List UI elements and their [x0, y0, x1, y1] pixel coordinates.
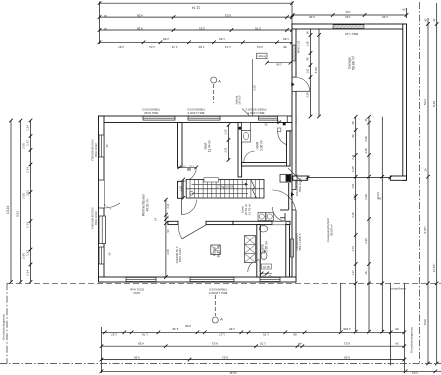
- svg-text:1.01: 1.01: [149, 45, 155, 49]
- svg-text:2.21: 2.21: [224, 147, 228, 153]
- stair mid rail: [186, 188, 264, 190]
- french window left wall: [99, 216, 106, 244]
- ramp diagonal at garage corner: [288, 168, 302, 182]
- svg-text:2.21: 2.21: [351, 154, 355, 160]
- svg-text:2.47²: 2.47²: [351, 166, 355, 172]
- svg-text:1.37: 1.37: [26, 140, 30, 146]
- svg-text:1.13: 1.13: [224, 129, 228, 135]
- svg-text:11.44 m²: 11.44 m²: [207, 140, 211, 152]
- stair break line: [251, 180, 257, 198]
- small wall y210: [280, 209, 289, 211]
- svg-text:2.38: 2.38: [364, 194, 368, 200]
- svg-text:1.17: 1.17: [351, 270, 355, 276]
- svg-text:58.86 m²: 58.86 m²: [352, 55, 356, 70]
- garage side door leaf + arc: [296, 90, 310, 92]
- garage top wall: [292, 24, 407, 29]
- svg-text:10.24: 10.24: [6, 206, 10, 214]
- svg-text:1.01: 1.01: [345, 10, 351, 14]
- svg-text:6.37²: 6.37²: [423, 226, 427, 233]
- window top wall HWR: [259, 116, 279, 120]
- driveway dim 1: [355, 117, 357, 332]
- svg-text:1.37: 1.37: [26, 250, 30, 256]
- window right wall lower: [291, 239, 294, 257]
- svg-text:2.35: 2.35: [351, 212, 355, 218]
- svg-text:1.74: 1.74: [171, 45, 177, 49]
- section line A top: [213, 84, 215, 103]
- wall gast left: [178, 123, 183, 168]
- svg-text:1.50: 1.50: [198, 45, 204, 49]
- driveway dim 3: [381, 117, 383, 332]
- chimney block: [280, 174, 291, 182]
- garage side door opening: [293, 77, 298, 91]
- svg-text:Grundstücksgrenze: Grundstücksgrenze: [2, 314, 6, 340]
- svg-text:3.49: 3.49: [172, 327, 178, 331]
- svg-text:86: 86: [293, 333, 297, 337]
- svg-text:14.11: 14.11: [229, 371, 237, 375]
- gast dim: [228, 125, 230, 160]
- top wall: [99, 116, 297, 123]
- bottom dim row3: [102, 359, 405, 361]
- entrance sill glyph box: [277, 128, 281, 132]
- svg-text:2.35: 2.35: [364, 238, 368, 244]
- svg-text:1.24: 1.24: [26, 125, 30, 131]
- left dim 10.24: [10, 121, 12, 283]
- svg-text:BRH 1.25/0.5: BRH 1.25/0.5: [247, 111, 264, 115]
- level mark: [262, 264, 272, 269]
- svg-text:24: 24: [395, 342, 399, 346]
- bottom wall: [99, 277, 297, 282]
- garage top window hatch: [333, 25, 364, 29]
- svg-text:17 Stg 18.6/26: 17 Stg 18.6/26: [217, 186, 234, 189]
- L wall wc corridor: [280, 217, 285, 219]
- extension line x404.5: [404, 283, 406, 371]
- svg-text:1.74: 1.74: [225, 45, 231, 49]
- svg-text:BRH 1.25/08.5: BRH 1.25/08.5: [208, 291, 227, 295]
- svg-text:2.04: 2.04: [257, 45, 263, 49]
- wall gast right: [238, 123, 242, 178]
- svg-text:BRH 10/22: BRH 10/22: [178, 248, 182, 262]
- svg-text:11.74: 11.74: [192, 6, 200, 10]
- svg-text:2.67: 2.67: [118, 45, 124, 49]
- svg-text:40.51 m²: 40.51 m²: [145, 198, 149, 212]
- svg-text:2.48: 2.48: [309, 15, 315, 19]
- section line A bottom: [214, 295, 216, 316]
- gast door arc: [182, 167, 196, 181]
- svg-text:1.01: 1.01: [189, 165, 194, 168]
- wc left wall: [257, 225, 261, 277]
- svg-text:BRH 1.25: BRH 1.25: [345, 32, 358, 36]
- svg-text:DN 100: DN 100: [238, 95, 242, 104]
- bottom dim row4: [102, 370, 441, 372]
- svg-text:BRH 10/22: BRH 10/22: [144, 111, 158, 115]
- svg-text:1.74: 1.74: [26, 222, 30, 228]
- svg-text:Grundstücksgrenze: Grundstücksgrenze: [410, 327, 414, 353]
- svg-text:BRH 10/22: BRH 10/22: [298, 178, 302, 192]
- Lueftung box: [257, 53, 268, 59]
- extension line x390.4: [389, 283, 391, 365]
- window left wall lower: [99, 247, 104, 264]
- right dim chain outer: [436, 3, 438, 364]
- garage interior dim 1: [310, 29, 312, 117]
- svg-text:86: 86: [283, 45, 287, 49]
- svg-text:25: 25: [364, 118, 368, 121]
- svg-text:2.21: 2.21: [166, 203, 170, 209]
- svg-text:5.49: 5.49: [432, 101, 436, 107]
- svg-text:90: 90: [351, 134, 355, 137]
- wc toilet: [261, 250, 265, 253]
- right dim chain inner: [427, 18, 429, 364]
- driveway vertical line: [340, 283, 342, 331]
- window top wall gast: [188, 116, 220, 120]
- svg-text:58.80 m²: 58.80 m²: [330, 224, 334, 236]
- garage door line: [308, 176, 391, 178]
- side entrance arc: [273, 190, 297, 214]
- svg-text:4.26: 4.26: [134, 355, 140, 359]
- svg-text:A: A: [220, 317, 223, 322]
- svg-text:BRH 1.25: BRH 1.25: [296, 40, 300, 53]
- svg-text:1.10: 1.10: [178, 186, 182, 192]
- hatch window porch-garage wall: [292, 45, 295, 61]
- kitchen door leaf + arc: [182, 225, 206, 239]
- svg-text:84: 84: [402, 8, 405, 12]
- staircase outline: [186, 180, 264, 199]
- dim row small: [100, 41, 293, 43]
- stair label box: [204, 178, 219, 182]
- svg-text:10.24: 10.24: [376, 192, 380, 200]
- svg-text:2.48: 2.48: [382, 15, 388, 19]
- wc inner wall right: [286, 225, 290, 277]
- wc sink: [259, 226, 267, 232]
- small dim under level: [262, 273, 273, 275]
- wall left of stair: [178, 181, 183, 198]
- svg-text:3.51: 3.51: [199, 27, 205, 31]
- svg-text:6.51: 6.51: [225, 14, 231, 18]
- svg-text:1.25: 1.25: [345, 15, 351, 19]
- svg-text:13.78 m²: 13.78 m²: [248, 204, 252, 216]
- svg-text:6.51: 6.51: [212, 342, 218, 346]
- window bottom wall kitchen: [190, 277, 234, 281]
- svg-text:1.50: 1.50: [229, 327, 235, 331]
- svg-text:1.67: 1.67: [111, 333, 117, 337]
- svg-text:1.01: 1.01: [306, 68, 310, 74]
- svg-text:1.50: 1.50: [283, 37, 289, 41]
- svg-text:1.76: 1.76: [263, 333, 269, 337]
- left dim chain 3: [30, 121, 32, 283]
- svg-text:BRH 10/22: BRH 10/22: [94, 211, 98, 225]
- wall hwr bottom: [242, 163, 290, 167]
- svg-text:36: 36: [351, 121, 355, 124]
- garage bottom wall right part: [390, 176, 406, 180]
- svg-text:6.51: 6.51: [222, 355, 228, 359]
- property line bottom dash-dot: [0, 363, 441, 365]
- extension lines of top dim block: [99, 2, 101, 45]
- svg-text:6.51: 6.51: [344, 342, 350, 346]
- svg-text:1.74: 1.74: [26, 167, 30, 173]
- closet in hwr corner: [242, 123, 251, 131]
- washer dryer boxes: [258, 213, 266, 221]
- svg-text:BRH 1.25/0.5: BRH 1.25/0.5: [298, 233, 302, 250]
- svg-text:A: A: [218, 79, 221, 84]
- svg-text:2.24: 2.24: [306, 92, 310, 98]
- window bottom wall 1: [126, 277, 156, 281]
- stair treads: [190, 180, 260, 199]
- svg-text:16.11 m²: 16.11 m²: [216, 245, 220, 257]
- corridor door arc: [272, 207, 286, 221]
- left dim chain 2: [20, 121, 22, 283]
- stair walk line: [192, 192, 249, 194]
- right wall full (house+garage shared): [292, 24, 296, 282]
- svg-text:1.24: 1.24: [26, 270, 30, 276]
- window top wall living: [143, 116, 175, 120]
- gast door leaf dim: [179, 166, 196, 168]
- svg-text:2.65: 2.65: [22, 193, 26, 199]
- stair-living door arc: [182, 200, 197, 215]
- svg-text:1.01: 1.01: [412, 371, 418, 375]
- svg-text:5.01: 5.01: [423, 99, 427, 105]
- svg-text:10/22: 10/22: [133, 291, 140, 295]
- driveway dim 2: [368, 117, 370, 332]
- svg-text:1.18: 1.18: [306, 41, 310, 47]
- svg-text:80: 80: [395, 327, 399, 331]
- svg-text:5.65 m²: 5.65 m²: [264, 241, 268, 252]
- living dim: [165, 200, 167, 277]
- dim row 4.26 6.51: [100, 16, 293, 18]
- svg-text:±0.00: ±0.00: [263, 265, 270, 269]
- svg-text:4.26: 4.26: [138, 342, 144, 346]
- garage interior dim 2: [318, 29, 320, 117]
- svg-text:6.55: 6.55: [344, 355, 350, 359]
- wall shaft right of hwr: [287, 131, 291, 166]
- svg-text:1.76: 1.76: [142, 333, 148, 337]
- svg-text:2.65: 2.65: [22, 143, 26, 149]
- svg-text:2.65: 2.65: [163, 37, 169, 41]
- bottom dim row1: [102, 331, 405, 333]
- side entrance door opening right wall: [293, 190, 298, 211]
- kitchen top wall right part: [206, 221, 233, 224]
- terrace door opening left wall: [99, 180, 104, 208]
- dim garage width: [293, 14, 407, 16]
- entrance door opening top wall: [278, 116, 288, 121]
- svg-text:11.37²: 11.37²: [432, 264, 436, 273]
- svg-text:44: 44: [298, 342, 302, 346]
- svg-text:1.50: 1.50: [219, 37, 225, 41]
- svg-text:Lüftung: Lüftung: [257, 54, 266, 58]
- window left wall living upper: [99, 135, 104, 157]
- svg-text:2.01: 2.01: [26, 190, 30, 196]
- svg-text:3.26: 3.26: [364, 148, 368, 154]
- entrance arrow side door: [291, 192, 294, 196]
- svg-text:9.00 m²: 9.00 m²: [259, 140, 263, 151]
- wc top wall: [233, 221, 290, 224]
- svg-text:schaußweg: schaußweg: [390, 287, 406, 291]
- svg-text:1.51: 1.51: [351, 183, 355, 189]
- wc door arc lower: [248, 260, 260, 272]
- svg-text:5.00: 5.00: [423, 319, 427, 325]
- svg-text:2.26: 2.26: [364, 136, 368, 142]
- entrance arrow garage door: [291, 82, 294, 86]
- svg-text:1.17: 1.17: [219, 333, 225, 337]
- svg-text:25: 25: [364, 271, 368, 274]
- window bottom wall wc: [260, 277, 280, 281]
- dashed line y283 full: [7, 282, 441, 284]
- svg-text:9.51: 9.51: [16, 211, 20, 217]
- porch canopy outline: [252, 59, 254, 116]
- dim row 11.74: [100, 2, 293, 4]
- stair width dim: [182, 180, 184, 199]
- kitchen appliance column: [245, 236, 256, 263]
- property line left vertical: [6, 283, 8, 363]
- entrance door arc: [278, 132, 287, 145]
- garage bottom wall left part: [293, 176, 308, 180]
- svg-text:BRH 10/22: BRH 10/22: [94, 143, 98, 157]
- left wall: [99, 116, 105, 282]
- svg-text:1.75: 1.75: [260, 342, 266, 346]
- svg-text:2.36: 2.36: [166, 249, 170, 255]
- black column 2: [283, 122, 286, 125]
- svg-text:BRH 1.25/0.5: BRH 1.25/0.5: [187, 111, 204, 115]
- terrace door arc: [105, 203, 121, 208]
- svg-text:2.65: 2.65: [185, 324, 191, 328]
- property line right dash-dot: [419, 2, 421, 363]
- kitchen island hob: [211, 245, 221, 255]
- dim row 4.26 3.51 2.76: [100, 29, 293, 31]
- bottom dim row2: [102, 345, 405, 347]
- svg-text:5.60²: 5.60²: [314, 67, 318, 73]
- svg-text:1.74: 1.74: [351, 246, 355, 252]
- svg-text:4.26: 4.26: [137, 27, 143, 31]
- kitchen top wall left stub: [168, 221, 178, 224]
- svg-text:3.50: 3.50: [253, 85, 257, 91]
- svg-text:4.26: 4.26: [137, 14, 143, 18]
- garage right wall: [403, 24, 407, 180]
- svg-text:1.98: 1.98: [276, 62, 282, 66]
- hwr door arc: [244, 151, 255, 162]
- svg-text:2.76: 2.76: [255, 27, 261, 31]
- svg-text:2.65: 2.65: [22, 253, 26, 259]
- niche wall right of chimney: [288, 183, 290, 210]
- black column 1: [239, 127, 241, 130]
- svg-text:2.156: 2.156: [343, 327, 351, 331]
